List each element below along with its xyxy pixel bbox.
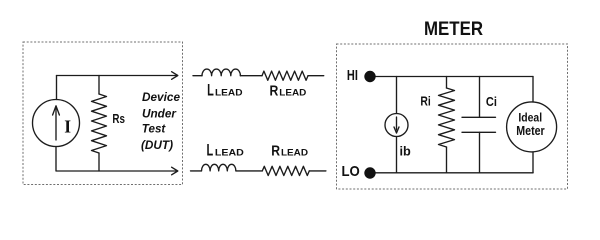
svg-text:ib: ib	[400, 143, 411, 158]
svg-text:Rs: Rs	[112, 112, 125, 126]
svg-text:Ci: Ci	[486, 94, 497, 109]
svg-text:Device: Device	[142, 90, 180, 104]
svg-text:LO: LO	[342, 163, 361, 180]
svg-text:LEAD: LEAD	[279, 88, 306, 99]
svg-text:(DUT): (DUT)	[141, 138, 173, 152]
svg-text:Ideal: Ideal	[518, 111, 542, 125]
svg-text:I: I	[64, 116, 71, 136]
svg-text:LEAD: LEAD	[215, 147, 244, 158]
svg-text:HI: HI	[347, 67, 358, 84]
svg-text:METER: METER	[424, 19, 483, 40]
svg-text:LEAD: LEAD	[281, 147, 308, 158]
svg-text:Meter: Meter	[516, 124, 544, 138]
svg-text:L: L	[207, 141, 214, 159]
svg-text:LEAD: LEAD	[215, 87, 243, 98]
svg-text:Test: Test	[142, 121, 166, 135]
svg-text:R: R	[271, 142, 280, 159]
svg-text:L: L	[207, 81, 214, 99]
svg-text:Ri: Ri	[420, 94, 430, 108]
svg-text:Under: Under	[142, 106, 177, 120]
svg-text:R: R	[270, 83, 279, 100]
